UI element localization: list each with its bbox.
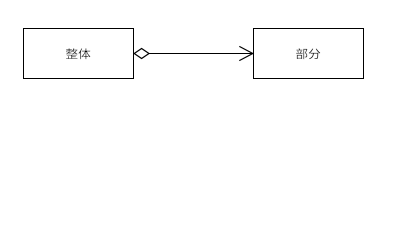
label 整体 (66, 48, 91, 59)
glyph 整 (66, 48, 78, 59)
glyph 体 (78, 48, 90, 59)
label 部分 (296, 48, 320, 59)
open arrowhead at 部分 side (239, 46, 253, 60)
class box 整体 (whole) (24, 29, 134, 79)
glyph 部 (296, 48, 307, 59)
glyph 分 (309, 48, 321, 59)
wire: association line from diamond to arrowhead (149, 53, 253, 55)
class box 部分 (part) (254, 29, 364, 79)
aggregation diamond (hollow) at 整体 side (134, 48, 149, 58)
